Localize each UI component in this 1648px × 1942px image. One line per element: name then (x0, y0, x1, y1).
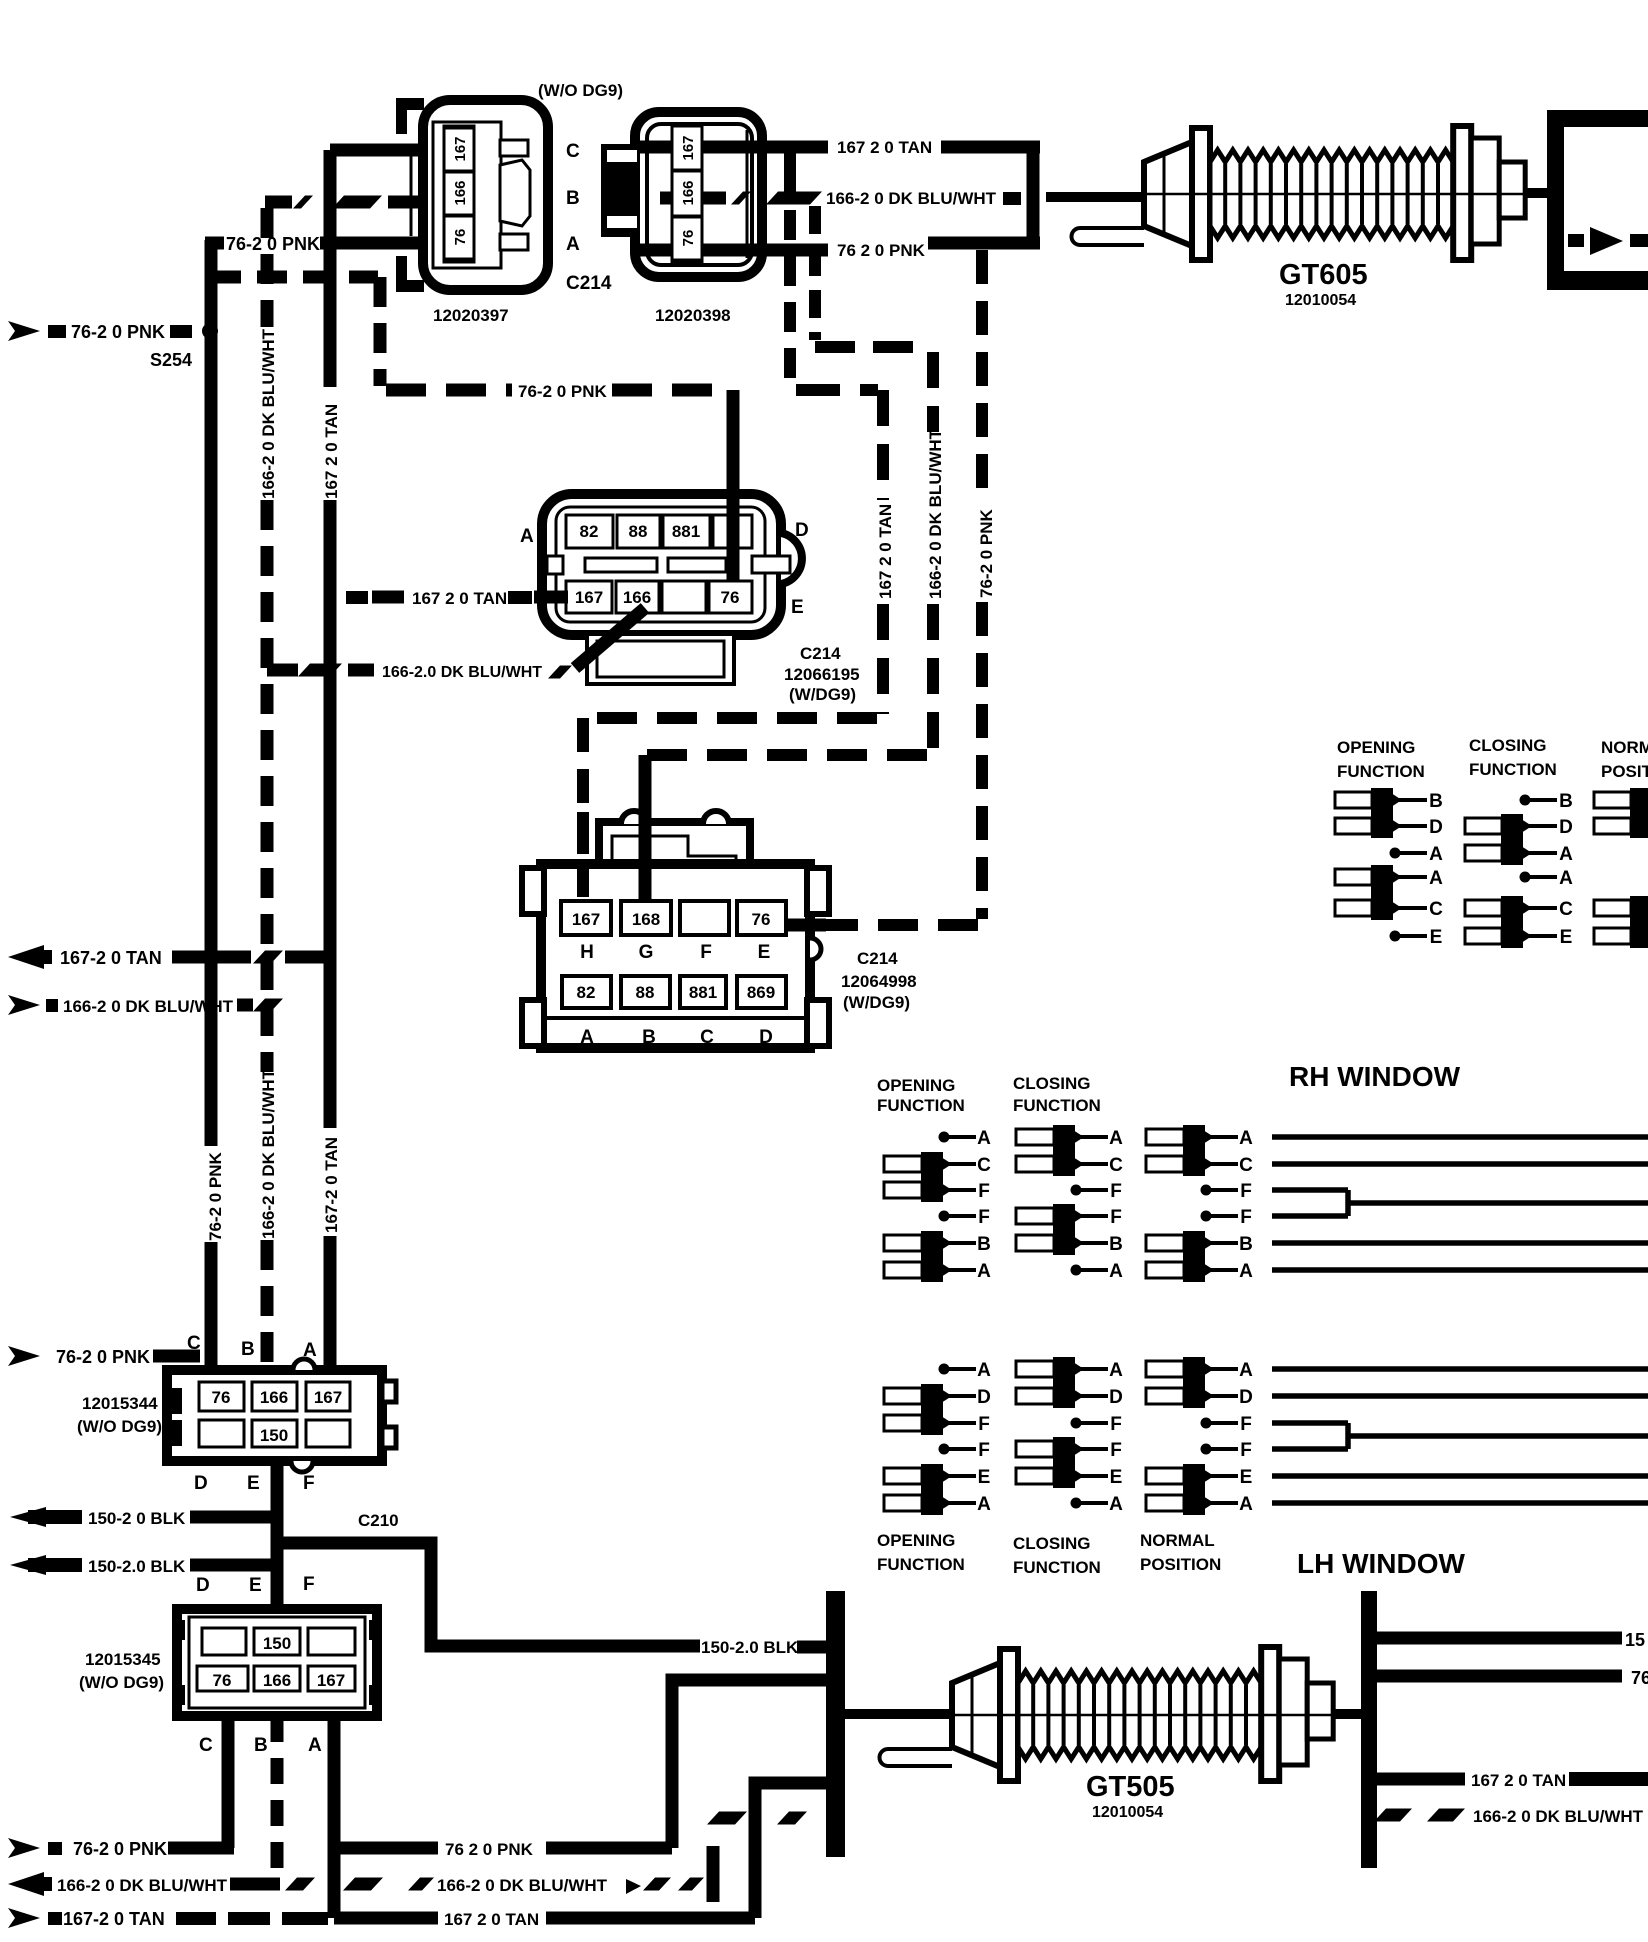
svg-text:LH WINDOW: LH WINDOW (1297, 1548, 1466, 1579)
svg-text:A: A (308, 1735, 322, 1756)
mini closing contacts D A (1465, 818, 1502, 834)
svg-text:150-2 0 BLK: 150-2 0 BLK (88, 1509, 186, 1528)
connector 12064998 wings (522, 868, 544, 914)
svg-text:A: A (1109, 1261, 1123, 1282)
connector 12064998 cap (599, 822, 750, 891)
svg-text:A: A (977, 1360, 991, 1381)
wire A pin down to 167 row (328, 1716, 341, 1918)
connector 12015345 body (177, 1609, 377, 1716)
mini closing dot B (1520, 795, 1531, 806)
svg-text:166-2 0 DK BLU/WHT: 166-2 0 DK BLU/WHT (437, 1876, 608, 1895)
svg-text:167: 167 (452, 136, 469, 161)
svg-text:150-2.0 BLK: 150-2.0 BLK (88, 1557, 186, 1576)
svg-text:166: 166 (260, 1388, 288, 1407)
wire 166 dashed pieces y=1818 (707, 1812, 747, 1825)
svg-text:76: 76 (752, 910, 771, 929)
wire 76 solid drop into C214 12066195 (727, 390, 740, 580)
motor GT505 left flange (1000, 1649, 1018, 1781)
RH opening dot A (939, 1132, 950, 1143)
svg-text:RH WINDOW: RH WINDOW (1289, 1061, 1461, 1092)
connector 12020397 body (423, 100, 548, 290)
svg-text:A: A (977, 1128, 991, 1149)
svg-text:D: D (1239, 1387, 1253, 1408)
svg-text:E: E (1560, 927, 1573, 948)
connector 12064998 bottom band line (546, 1016, 805, 1020)
svg-text:GT605: GT605 (1279, 259, 1368, 291)
connector 12020397 terminal strip (444, 126, 474, 262)
svg-text:F: F (978, 1414, 990, 1435)
svg-text:166-2 0 DK BLU/WHT: 166-2 0 DK BLU/WHT (826, 189, 997, 208)
svg-text:B: B (566, 188, 580, 209)
splice dot S254 (202, 323, 218, 339)
wire 167-2 0 TAN branch to trunk (172, 951, 251, 964)
wire 76 dashed run into E pin of 12064998 (820, 919, 978, 931)
connector 12066195 lock tab below (587, 634, 734, 684)
svg-text:D: D (977, 1387, 991, 1408)
cell 881 (663, 515, 710, 548)
mini opening dot E (1390, 931, 1401, 942)
wire 166 into 12020397 with splice slashes (265, 196, 292, 209)
cell 88 (617, 515, 660, 548)
wire 166 solid stub into G cell of 12064998 (639, 758, 652, 903)
wire 167 dashed drop into H pin of 12064998 (577, 718, 589, 903)
cell 167 (306, 1382, 350, 1411)
svg-text:FUNCTION: FUNCTION (1013, 1558, 1101, 1577)
LH closing contacts F E (1016, 1441, 1054, 1457)
svg-text:166: 166 (452, 180, 469, 205)
svg-text:E: E (1430, 927, 1443, 948)
svg-text:76-2 0 PNK: 76-2 0 PNK (206, 1151, 225, 1241)
wire C pin down to 76 row (222, 1716, 235, 1848)
svg-text:F: F (303, 1574, 315, 1595)
svg-text:OPENING: OPENING (877, 1531, 955, 1550)
svg-text:F: F (1110, 1414, 1122, 1435)
RH opening contacts B A (884, 1235, 922, 1251)
wire B pin dashed down to 166 row (271, 1716, 284, 1884)
RH closing dot A (1071, 1265, 1082, 1276)
cell 76 pin E (737, 901, 786, 935)
connector 12066195 right bump (781, 533, 802, 584)
wire 76 stub into E cell of 12064998 (786, 919, 826, 932)
svg-text:12020397: 12020397 (433, 306, 509, 325)
wire 167 2 0 TAN horizontal into 12020397 (330, 144, 444, 157)
arrow 76-2 0 PNK lead at y=331 (8, 321, 40, 341)
svg-text:C214: C214 (800, 644, 841, 663)
wire 76 dashed vertical x=982 from bracket (976, 250, 988, 502)
wire 167 riser x=755 and jog to LH bar (755, 1783, 828, 1918)
svg-text:NORMAL: NORMAL (1140, 1531, 1215, 1550)
RH normal dot F (1201, 1185, 1212, 1196)
LH closing dot F (1071, 1418, 1082, 1429)
cell blank (306, 1420, 350, 1447)
svg-text:FUNCTION: FUNCTION (877, 1555, 965, 1574)
svg-text:881: 881 (689, 983, 717, 1002)
RH closing contacts A C (1016, 1129, 1054, 1145)
cell 166 (252, 1382, 297, 1411)
cell 166 (616, 581, 659, 613)
svg-text:POSITION: POSITION (1601, 762, 1648, 781)
connector 12020398 left protrusion (601, 144, 637, 237)
connector C214 12066195 body (542, 494, 781, 635)
svg-text:167: 167 (572, 910, 600, 929)
connector 12020398 body (635, 112, 762, 277)
svg-text:D: D (1429, 817, 1443, 838)
arrow 167-2 0 TAN at y=1918 (8, 1908, 40, 1928)
svg-text:E: E (247, 1473, 260, 1494)
connector 12020397 left mounting tabs (396, 98, 424, 110)
svg-text:76-2 0 PNK: 76-2 0 PNK (977, 508, 996, 598)
svg-text:76: 76 (721, 588, 740, 607)
svg-text:S254: S254 (150, 350, 192, 370)
motor GT505 drain hook (880, 1749, 953, 1766)
svg-text:167-2 0 TAN: 167-2 0 TAN (60, 948, 162, 968)
svg-text:A: A (1109, 1494, 1123, 1515)
svg-text:12015345: 12015345 (85, 1650, 161, 1669)
svg-text:OPENING: OPENING (877, 1076, 955, 1095)
wire 76 corner up x=672 (672, 1680, 828, 1848)
arrow 166-2 0 DK BLU/WHT at y=1884 (8, 1872, 44, 1896)
svg-text:A: A (1239, 1261, 1253, 1282)
svg-text:F: F (1240, 1207, 1252, 1228)
wire GT505 left lead (845, 1709, 955, 1719)
svg-text:76: 76 (452, 229, 469, 246)
wire 166 branch under trunk (267, 664, 298, 677)
svg-text:C: C (1559, 899, 1573, 920)
LH normal dot F (1201, 1418, 1212, 1429)
svg-text:F: F (1110, 1440, 1122, 1461)
wire 76 2 0 PNK bottom run (334, 1842, 438, 1855)
svg-text:GT505: GT505 (1086, 1771, 1175, 1803)
cell blank (199, 1420, 244, 1447)
svg-text:F: F (978, 1181, 990, 1202)
svg-text:B: B (1239, 1234, 1253, 1255)
wire 76-2 0 PNK into 12020397 (205, 237, 224, 250)
cell 150 (252, 1420, 297, 1447)
svg-text:CLOSING: CLOSING (1013, 1074, 1090, 1093)
RH normal contacts A C (1146, 1129, 1184, 1145)
RH opening contacts C F (884, 1156, 922, 1172)
wire 166 dashed run y=350 (815, 341, 930, 353)
cell 168 pin G (621, 901, 671, 935)
arrow 150-2.0 BLK at y=1565 (10, 1555, 46, 1575)
connector 12015345 side tabs (177, 1620, 185, 1640)
svg-text:G: G (639, 942, 654, 963)
svg-text:C: C (1239, 1155, 1253, 1176)
svg-text:FUNCTION: FUNCTION (1469, 760, 1557, 779)
cell 167 (308, 1666, 355, 1691)
mini closing contacts C E (1465, 900, 1502, 916)
wire 167 branch right (1377, 1773, 1465, 1786)
svg-text:12020398: 12020398 (655, 306, 731, 325)
svg-text:150-2.0 BLK: 150-2.0 BLK (701, 1638, 799, 1657)
cell blank bottom (662, 581, 706, 613)
svg-text:166-2 0 DK BLU/WHT: 166-2 0 DK BLU/WHT (63, 997, 234, 1016)
wire 150 BLK to lower connector E pin (190, 1559, 282, 1572)
wire 167 2 0 TAN vertical trunk x=330 (324, 150, 337, 387)
dashed wire with arrow inside bracket (1568, 234, 1584, 247)
RH closing dot F (1071, 1185, 1082, 1196)
svg-text:E: E (978, 1467, 991, 1488)
svg-text:A: A (1239, 1128, 1253, 1149)
svg-text:166-2 0 DK BLU/WHT: 166-2 0 DK BLU/WHT (926, 428, 945, 599)
cell blank (202, 1628, 246, 1655)
arrow 76-2 0 PNK at y=1848 (8, 1838, 40, 1858)
wire 167 dashed run to x=883 (796, 384, 878, 396)
wire GT605 right lead (1525, 188, 1551, 198)
LH closing dot A (1071, 1498, 1082, 1509)
svg-text:E: E (1240, 1467, 1253, 1488)
svg-text:167-2 0 TAN: 167-2 0 TAN (322, 1137, 341, 1233)
motor GT505 bellows (1018, 1671, 1261, 1759)
svg-text:167 2 0 TAN: 167 2 0 TAN (1471, 1771, 1566, 1790)
wire 166 dashed run y=755 to G pin drop (645, 749, 927, 761)
cell 167 (566, 581, 612, 613)
svg-text:POSITION: POSITION (1140, 1555, 1221, 1574)
svg-text:C210: C210 (358, 1511, 399, 1530)
wire 150-2.0 BLK branch right (1377, 1632, 1622, 1645)
svg-text:B: B (1429, 791, 1443, 812)
svg-text:A: A (977, 1494, 991, 1515)
svg-text:A: A (1109, 1128, 1123, 1149)
svg-text:D: D (196, 1575, 210, 1596)
svg-text:F: F (1240, 1181, 1252, 1202)
motor GT505 right body (1279, 1659, 1307, 1765)
svg-text:C214: C214 (566, 273, 612, 294)
mini normal contacts B D (cut at edge) (1594, 792, 1631, 808)
wire bracket vertical joining 167/76 (1027, 141, 1040, 249)
RH normal dot F (1201, 1211, 1212, 1222)
svg-text:H: H (580, 942, 594, 963)
cell 76 (199, 1382, 244, 1411)
cell blank top (713, 515, 752, 548)
wire 166 from 12020398 pin B with splice slashes (660, 192, 673, 205)
LH closing contacts A D (1016, 1361, 1054, 1377)
motor GT605 left cone (1144, 142, 1192, 246)
svg-text:88: 88 (636, 983, 655, 1002)
svg-text:(W/O DG9): (W/O DG9) (79, 1673, 164, 1692)
LH window harness lines (1272, 1366, 1648, 1372)
svg-text:F: F (1110, 1181, 1122, 1202)
LH opening dot A (939, 1364, 950, 1375)
motor GT505 left cone (952, 1663, 1000, 1767)
RH opening dot F (939, 1211, 950, 1222)
svg-text:E: E (249, 1575, 262, 1596)
connector 12064998 body (541, 864, 810, 1048)
svg-text:82: 82 (580, 522, 599, 541)
arrow 167-2 0 TAN at y=957 (8, 945, 44, 969)
mini opening dot A (1390, 848, 1401, 859)
svg-text:167: 167 (314, 1388, 342, 1407)
svg-text:F: F (1240, 1440, 1252, 1461)
wire 150 from E pin down (271, 1461, 284, 1609)
svg-text:88: 88 (629, 522, 648, 541)
svg-text:OPENING: OPENING (1337, 738, 1415, 757)
cell 82 pin A (562, 976, 611, 1008)
cell 167 pin H (561, 901, 611, 935)
connector 12015344 bottom notch (291, 1461, 313, 1472)
middle slots (585, 558, 657, 572)
svg-text:76-2 0 PNK: 76-2 0 PNK (226, 234, 320, 254)
svg-text:167 2 0 TAN: 167 2 0 TAN (837, 138, 932, 157)
svg-text:166: 166 (263, 1671, 291, 1690)
svg-text:A: A (1559, 844, 1573, 865)
wire 76 drop stub into 12066195 blank cell (727, 486, 740, 580)
motor GT505 centerline (952, 1714, 1333, 1717)
wire 166 bottom left segment (230, 1878, 280, 1891)
svg-text:C: C (977, 1155, 991, 1176)
wire 76 to lower connector C pin (168, 1842, 234, 1855)
svg-text:E: E (1110, 1467, 1123, 1488)
svg-text:869: 869 (747, 983, 775, 1002)
wire 166 dashed branch right (1374, 1809, 1412, 1822)
svg-text:(W/O DG9): (W/O DG9) (77, 1417, 162, 1436)
svg-text:166-2 0 DK BLU/WHT: 166-2 0 DK BLU/WHT (259, 328, 278, 499)
svg-text:76 2 0 PNK: 76 2 0 PNK (445, 1840, 534, 1859)
arrow 76-2 0 PNK at y=1356 (8, 1346, 40, 1366)
svg-text:D: D (194, 1473, 208, 1494)
wire 166 bottom slashes to label (343, 1878, 383, 1891)
mini closing dot A (1520, 872, 1531, 883)
wire 150 BLK to connector E pin (190, 1511, 282, 1524)
svg-text:FUNCTION: FUNCTION (1337, 762, 1425, 781)
svg-text:B: B (254, 1735, 268, 1756)
wire 167 dashed run y=718 to H pin drop (583, 712, 877, 724)
svg-text:A: A (566, 234, 580, 255)
svg-text:F: F (700, 942, 712, 963)
svg-text:15: 15 (1625, 1630, 1645, 1650)
cell blank (308, 1628, 355, 1655)
wires into 12015344 top (205, 1372, 218, 1380)
svg-text:NORMAL: NORMAL (1601, 738, 1648, 757)
svg-text:12010054: 12010054 (1285, 292, 1356, 309)
svg-text:B: B (241, 1339, 255, 1360)
svg-text:166: 166 (680, 180, 697, 205)
wire 167 dashed vertical x=883 (877, 390, 889, 500)
motor GT605 right flange (1453, 126, 1471, 260)
motor GT605 bellows (1210, 150, 1453, 238)
cell 82 (566, 515, 613, 548)
wire 167 bottom dashes to A pin (176, 1912, 216, 1925)
connector 12020398 terminal strip (672, 124, 702, 262)
svg-text:167: 167 (680, 135, 697, 160)
svg-text:167 2 0 TAN: 167 2 0 TAN (322, 404, 341, 499)
wire 166 lead into GT605 (1046, 192, 1146, 202)
svg-text:CLOSING: CLOSING (1013, 1534, 1090, 1553)
LH normal contacts A D (1146, 1361, 1184, 1377)
connector bracket at right edge (RH window motor connector) (1547, 110, 1564, 290)
svg-text:150: 150 (260, 1426, 288, 1445)
wire 166-2 0 DK BLU/WHT dashed vertical trunk x=267 (261, 208, 274, 327)
wire 167 branch into 12066195 (346, 591, 368, 604)
svg-text:D: D (759, 1027, 773, 1048)
wire 166 dashed vertical x=933 (927, 352, 939, 432)
wire 76-2 0 PNK vertical trunk x=211 (205, 240, 218, 1146)
svg-text:B: B (977, 1234, 991, 1255)
svg-text:A: A (1109, 1360, 1123, 1381)
svg-text:167: 167 (575, 588, 603, 607)
wire 167 dashed stub into H cell of 12064998 (577, 812, 589, 903)
cell 869 pin D (737, 976, 786, 1008)
wire 166 diagonal into 166 cell (575, 608, 645, 668)
svg-text:76 2 0 PNK: 76 2 0 PNK (837, 241, 926, 260)
arrow 150-2 0 BLK at y=1517 (10, 1507, 46, 1527)
connector 12015344 left tabs (170, 1388, 182, 1414)
mini normal contacts C E (cut at edge) (1594, 900, 1631, 916)
wire 76 branch into connector C pin (153, 1350, 200, 1363)
cell 88 pin B (621, 976, 670, 1008)
svg-text:12064998: 12064998 (841, 972, 917, 991)
svg-text:C: C (1109, 1155, 1123, 1176)
connector 12015344 body (167, 1370, 382, 1461)
svg-text:12010054: 12010054 (1092, 1804, 1163, 1821)
svg-text:166: 166 (623, 588, 651, 607)
connector 12020397 right keying tabs (500, 140, 528, 156)
svg-text:(W/DG9): (W/DG9) (789, 685, 856, 704)
svg-text:F: F (303, 1473, 315, 1494)
cell 76 (197, 1666, 248, 1691)
svg-text:76-2 0 PNK: 76-2 0 PNK (518, 382, 608, 401)
motor GT605 drain hook (1072, 228, 1145, 245)
cell 150 (254, 1628, 300, 1655)
wire 76 dashed branch from trunk at y=277 (211, 271, 378, 284)
svg-text:12015344: 12015344 (82, 1394, 158, 1413)
wire 166 solid drop into G pin of 12064998 (639, 755, 652, 903)
svg-text:D: D (1559, 817, 1573, 838)
svg-text:F: F (978, 1440, 990, 1461)
svg-text:B: B (642, 1027, 656, 1048)
svg-text:(W/DG9): (W/DG9) (843, 993, 910, 1012)
svg-text:167 2 0 TAN: 167 2 0 TAN (412, 589, 507, 608)
svg-text:A: A (1429, 844, 1443, 865)
connector 12015344 right tabs (382, 1381, 396, 1402)
svg-text:167-2 0 TAN: 167-2 0 TAN (63, 1909, 165, 1929)
LH normal contacts E A (1146, 1468, 1184, 1484)
svg-text:166-2.0 DK BLU/WHT: 166-2.0 DK BLU/WHT (382, 664, 542, 681)
motor GT605 centerline (1144, 193, 1525, 196)
wire 167 drop from pin-C wire x=790 (784, 147, 796, 193)
wire 76 2 0 PNK from 12020398 pin A (638, 244, 673, 257)
svg-text:FUNCTION: FUNCTION (1013, 1096, 1101, 1115)
svg-text:C: C (187, 1333, 201, 1354)
svg-text:D: D (1109, 1387, 1123, 1408)
motor GT605 right body (1471, 138, 1499, 244)
wire 166 short vertical x=713 (707, 1846, 720, 1902)
svg-text:B: B (1109, 1234, 1123, 1255)
svg-text:76: 76 (213, 1671, 232, 1690)
wire 76 dashed corner down x=380 (374, 277, 387, 386)
svg-text:A: A (1239, 1360, 1253, 1381)
cell 76 (709, 581, 752, 613)
svg-text:FUNCTION: FUNCTION (877, 1096, 965, 1115)
svg-text:166-2 0 DK BLU/WHT: 166-2 0 DK BLU/WHT (259, 1068, 278, 1239)
svg-text:166-2 0 DK BLU/WHT: 166-2 0 DK BLU/WHT (1473, 1807, 1644, 1826)
cell blank pin F (680, 901, 729, 935)
wire 166 branch to trunk (237, 999, 253, 1012)
wire 167 bottom run to riser (334, 1912, 438, 1925)
svg-text:76-2 0 PNK: 76-2 0 PNK (71, 322, 165, 342)
svg-text:C: C (199, 1735, 213, 1756)
wire 76-2 0 PNK dashed run y=390 (386, 384, 512, 397)
connector 12015344 top notch (293, 1359, 315, 1370)
LH window right bus bar (1361, 1591, 1377, 1868)
cell 166 (254, 1666, 300, 1691)
svg-text:E: E (791, 597, 804, 618)
LH opening dot F (939, 1444, 950, 1455)
svg-text:D: D (795, 520, 809, 541)
RH closing contacts F B (1016, 1208, 1054, 1224)
svg-text:E: E (758, 942, 771, 963)
svg-text:76: 76 (680, 230, 697, 247)
